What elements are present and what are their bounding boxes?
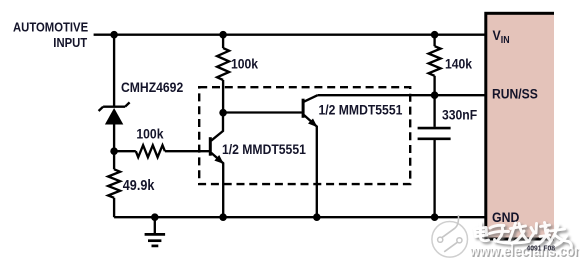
wire zener branch upper [113, 35, 115, 107]
resistor R2 100k horizontal [114, 145, 209, 157]
wire zener to node A [113, 124, 115, 152]
svg-text:www.elecfans.com: www.elecfans.com [469, 243, 580, 259]
junction node ground rail C1 [431, 213, 439, 221]
svg-text:4091 F08: 4091 F08 [527, 244, 556, 252]
junction node top-R1 [219, 31, 227, 39]
char dian [474, 223, 489, 241]
transistor Q1 1/2 MMDT5551 (left) [210, 113, 224, 218]
watermark www.elecfans.com [469, 243, 580, 260]
pin label VIN [493, 27, 510, 44]
char shao [530, 223, 550, 244]
svg-text:RUN/SS: RUN/SS [492, 86, 538, 102]
svg-text:140k: 140k [445, 55, 473, 71]
char zi [490, 225, 530, 243]
wire top rail [94, 34, 486, 36]
svg-text:CMHZ4692: CMHZ4692 [121, 79, 183, 95]
junction node RUN/SS (R4/C1) [431, 91, 439, 99]
svg-text:AUTOMOTIVE: AUTOMOTIVE [13, 20, 88, 35]
char you [549, 226, 572, 249]
junction node top-zener [110, 31, 118, 39]
dashed box around Q1/Q2 [199, 87, 410, 184]
svg-text:V: V [493, 27, 501, 43]
char fa [510, 223, 528, 244]
wire bottom ground rail [114, 216, 486, 218]
junction node B (R1/Q1 collector/Q2 base) [219, 109, 227, 117]
zener diode D1 CMHZ4692 [99, 102, 130, 124]
junction node top-R4 [431, 31, 439, 39]
watermark chinese text strokes [474, 223, 571, 249]
label AUTOMOTIVE INPUT [13, 20, 88, 50]
svg-text:49.9k: 49.9k [123, 177, 155, 193]
svg-text:INPUT: INPUT [53, 35, 87, 50]
svg-text:1/2 MMDT5551: 1/2 MMDT5551 [222, 141, 306, 157]
capacitor C1 330nF [418, 95, 451, 217]
junction node ground rail Q1 emitter [219, 213, 227, 221]
watermark logo circle [432, 215, 468, 257]
svg-text:330nF: 330nF [442, 107, 477, 123]
wire RUN/SS rail [318, 94, 486, 96]
svg-text:1/2 MMDT5551: 1/2 MMDT5551 [319, 102, 403, 118]
svg-text:100k: 100k [231, 55, 259, 71]
resistor R3 49.9k [108, 151, 120, 217]
junction node ground rail Q2 emitter [313, 213, 321, 221]
resistor R1 100k top [217, 35, 229, 113]
junction node A (zener/R2/R3) [110, 147, 118, 155]
junction node ground rail at ground symbol [151, 213, 159, 221]
resistor R4 140k [429, 35, 441, 95]
svg-text:IN: IN [501, 33, 510, 45]
transistor Q2 1/2 MMDT5551 (right) [303, 95, 318, 217]
IC block U1 [484, 12, 554, 241]
svg-text:100k: 100k [136, 126, 164, 142]
ground symbol [145, 217, 166, 246]
wire node A to Q1 base handled above; wire collector node to Q2 base [223, 111, 302, 113]
